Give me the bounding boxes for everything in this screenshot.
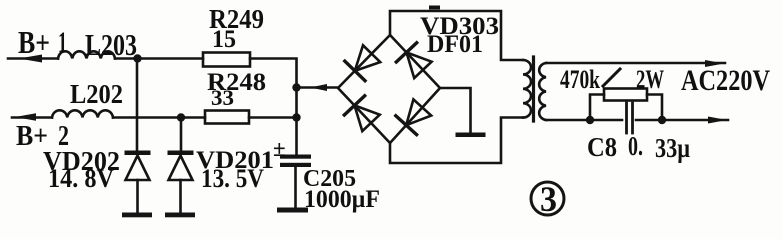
ground C205	[277, 208, 308, 213]
wire R249 to supply corner	[250, 59, 297, 156]
svg-text:2W: 2W	[636, 65, 664, 94]
svg-text:33µ: 33µ	[655, 133, 690, 163]
wire B+1 rail left segment	[8, 57, 58, 60]
wire vertical VD201 branch	[180, 118, 183, 151]
ground VD202	[122, 213, 152, 218]
wire bridge top lead	[390, 11, 523, 60]
wire AC bottom right of C8	[636, 119, 728, 122]
svg-text:1000µF: 1000µF	[304, 186, 380, 213]
svg-text:13. 5V: 13. 5V	[201, 164, 264, 193]
inductor L203	[58, 51, 115, 58]
wire B+2 rail left segment	[12, 116, 52, 119]
diode D3 bar	[396, 43, 416, 62]
diode D2 bottom-left triangle	[355, 105, 380, 131]
zener VD201 triangle	[169, 156, 193, 181]
label slash in 470k/2W	[603, 69, 620, 86]
diode D3 top-right triangle	[407, 52, 432, 78]
zener VD201 cathode bar	[168, 151, 194, 156]
diode D1 top-left triangle	[355, 45, 380, 71]
svg-text:C8: C8	[587, 132, 617, 162]
ground VD201	[165, 213, 195, 218]
svg-text:L203: L203	[85, 27, 137, 62]
transformer core	[532, 57, 535, 121]
diode D4 bar	[396, 116, 417, 135]
ground bridge	[456, 133, 486, 138]
transformer secondary winding	[539, 63, 546, 120]
wire L202 to R248	[113, 116, 205, 119]
arrow B+2 pointing left	[15, 113, 36, 120]
tick on top wire	[429, 6, 440, 10]
svg-text:DF01: DF01	[427, 31, 483, 58]
bridge VD303 diamond	[338, 35, 440, 143]
svg-text:AC220V: AC220V	[681, 64, 770, 97]
arrow AC top pointing right	[705, 60, 724, 67]
arrow AC bottom pointing right	[708, 117, 727, 124]
transformer T primary winding	[523, 60, 531, 118]
resistor 470k box	[604, 89, 647, 101]
node dot bridge feed	[292, 83, 300, 91]
arrow bridge output pointing left	[310, 84, 327, 91]
wire AC top	[546, 62, 725, 65]
svg-text:14. 8V: 14. 8V	[48, 164, 114, 193]
wire L203 to R249	[115, 57, 203, 60]
svg-text:15: 15	[212, 26, 236, 53]
wire bridge right vertex to ground	[440, 88, 471, 133]
node dot C8 right	[658, 116, 666, 124]
node dot junction L203/VD202	[133, 54, 141, 62]
wire VD201 to ground	[179, 180, 182, 213]
wire vertical VD202 branch	[136, 59, 139, 151]
diode D2 bar	[344, 96, 364, 115]
arrow B+1 pointing left	[19, 55, 42, 63]
diode D1 bar	[345, 61, 365, 81]
resistor R249	[203, 53, 250, 67]
resistor 470k branch right	[647, 95, 662, 121]
wire AC bottom left of C8	[546, 119, 622, 122]
svg-text:L202: L202	[70, 79, 123, 109]
node dot R248/C205	[292, 113, 300, 121]
wire bridge bottom lead	[390, 118, 523, 164]
inductor L202	[52, 110, 113, 117]
svg-text:3: 3	[540, 179, 557, 219]
zener VD202 triangle	[126, 156, 150, 181]
svg-text:33: 33	[211, 85, 234, 110]
diode D4 bottom-right triangle	[406, 99, 431, 125]
resistor R248	[205, 111, 249, 124]
wire C205 to ground	[294, 167, 297, 208]
resistor 470k branch left	[590, 95, 604, 121]
zener VD202 cathode bar	[125, 151, 151, 156]
node dot C8 left	[586, 116, 594, 124]
node dot junction L202/VD201	[177, 113, 185, 121]
svg-text:0.: 0.	[628, 131, 643, 161]
capacitor C8 plates	[625, 103, 628, 133]
svg-text:1: 1	[58, 26, 67, 59]
svg-text:±: ±	[273, 136, 286, 161]
svg-text:B+: B+	[18, 24, 50, 60]
wire VD202 to ground	[136, 180, 139, 213]
wire bridge feed	[297, 86, 339, 89]
wire R248 to supply line	[249, 116, 297, 119]
figure number circle	[531, 182, 564, 215]
capacitor C205 plates	[280, 155, 311, 159]
svg-text:470k: 470k	[560, 65, 600, 94]
